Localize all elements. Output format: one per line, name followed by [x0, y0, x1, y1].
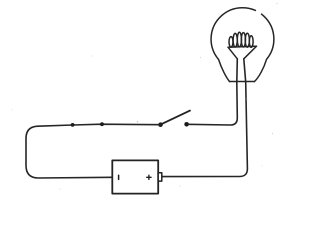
wire: top run from left corner to switch pivot [38, 124, 161, 126]
wire: left side with rounded corners [26, 126, 112, 178]
lamp DS1 filament coil [229, 32, 253, 47]
switch S1 pivot terminal dot [158, 122, 163, 127]
lamp DS1 filament support funnel [228, 46, 257, 59]
switch S1 movable lever arm (open) [161, 111, 191, 125]
battery BT1 positive terminal nub [158, 173, 162, 181]
battery BT1 case [112, 160, 158, 193]
lamp DS1 right lead-in wire [162, 59, 248, 177]
junction dot B on top wire [100, 122, 104, 126]
lamp DS1 base line [230, 81, 255, 83]
battery BT1 negative mark [118, 175, 120, 179]
battery BT1 positive mark [147, 175, 151, 179]
lamp DS1 glass envelope [211, 8, 274, 82]
switch S1 fixed contact terminal dot [184, 122, 189, 127]
lamp DS1 envelope pen gap [255, 8, 262, 14]
lamp DS1 left lead-in wire [187, 59, 238, 125]
junction dot A on top wire [71, 123, 75, 127]
